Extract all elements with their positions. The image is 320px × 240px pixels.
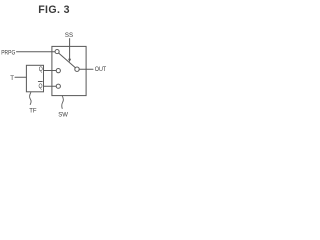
svg-text:PRPG: PRPG [1, 49, 15, 56]
node contact B (wiper pivot) [75, 67, 79, 71]
svg-text:SW: SW [58, 112, 68, 118]
svg-text:FIG. 3: FIG. 3 [38, 4, 69, 16]
wire T input [15, 76, 26, 78]
wire OUT [79, 68, 93, 70]
leader to TF label [30, 93, 32, 105]
svg-text:OUT: OUT [95, 66, 107, 73]
svg-text:TF: TF [29, 108, 37, 114]
svg-text:Q: Q [39, 66, 43, 73]
wire Q to contact C [44, 70, 57, 72]
wire wiper diagonal [59, 53, 76, 68]
wire Qbar to contact D [44, 85, 57, 87]
arrowhead SS [68, 59, 71, 62]
node contact A (PRPG) [55, 50, 59, 54]
wire SS control [69, 39, 71, 59]
node contact C (Q) [56, 69, 60, 73]
flip-flop TF box [26, 65, 43, 92]
node contact D (Qbar) [56, 84, 60, 88]
svg-text:SS: SS [65, 32, 74, 39]
leader to SW label [62, 96, 64, 109]
switch SW box [52, 46, 86, 95]
svg-text:T: T [10, 75, 14, 82]
wire PRPG input [17, 51, 56, 53]
svg-text:Q: Q [39, 83, 43, 90]
